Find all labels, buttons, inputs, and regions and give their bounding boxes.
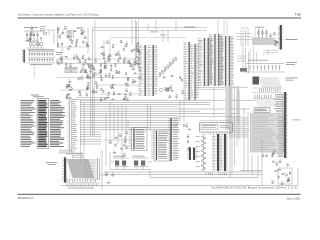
transistor cluster Q100 area (57, 26, 93, 66)
routing web right of bank (237, 46, 257, 63)
VIP signal row resistors (246, 60, 284, 72)
discrete cluster mid-left D (94, 79, 136, 101)
wires below J210 (265, 51, 278, 53)
filter row 2 L101-L104 (29, 43, 42, 46)
board connector J103 (21, 99, 66, 149)
flash memory U202 (139, 45, 158, 96)
discrete cluster above charge pumps (113, 145, 129, 156)
grey bus band vertical 1 (226, 86, 232, 130)
connector J101 (22, 49, 54, 62)
svg-text:Schematics, Component Location: Schematics, Component Location Diagrams,… (18, 13, 100, 16)
pullup resistors top (255, 27, 267, 38)
microprocessor U200 pin bank B (209, 34, 224, 86)
keypad connector J210 (278, 25, 283, 50)
backlight fan block (253, 95, 279, 108)
vertical wire pair x136 (136, 20, 139, 60)
discrete band row (56, 54, 142, 67)
net label right of J103 (58, 109, 64, 112)
nested corner wires (240, 28, 248, 46)
LCD rows left extension (229, 118, 249, 138)
option connector J110 (62, 158, 66, 183)
svg-text:7-39: 7-39 (295, 13, 301, 17)
right vertical wire runs (230, 86, 262, 186)
option fan hatch (65, 150, 108, 190)
LCD module block M1 (251, 114, 284, 153)
memory U201 pin bank C (220, 36, 234, 86)
microprocessor U200 pin bank A (198, 38, 213, 86)
option header ticks top (58, 150, 84, 158)
long bus wires top (92, 28, 207, 62)
filter parts extra (26, 27, 43, 46)
audio PA cluster Q120 (271, 160, 291, 185)
grey bus band vertical 2 (237, 86, 240, 122)
routing wires to ribbon (236, 26, 268, 56)
option note text (46, 162, 57, 165)
decoupling block (240, 68, 247, 72)
regulator U206 (129, 128, 148, 151)
audio IC U205 (206, 134, 228, 175)
not-placed note 1 (286, 38, 298, 41)
series resistor chain R210-R217 (158, 57, 178, 78)
VIP note text (286, 62, 297, 65)
buffer U208 column (168, 118, 179, 161)
dark IC block U209 (187, 148, 197, 161)
net label top (184, 26, 195, 29)
svg-text:6881094C31-C: 6881094C31-C (18, 197, 34, 200)
header rule (18, 18, 302, 19)
display label box (254, 108, 270, 112)
discrete cluster middle-top (100, 20, 140, 57)
net label right of J211 (293, 119, 301, 122)
inner boundary wire (110, 38, 186, 55)
top net wires (95, 20, 156, 30)
test point strip column (68, 98, 78, 152)
latch U204 box (200, 121, 233, 135)
EMI filter network FL100 (24, 26, 54, 48)
J211 pin name rows upper (275, 93, 284, 96)
option bottom text row (68, 187, 94, 190)
parts at bottom wire (105, 172, 114, 183)
display data fan block (252, 77, 282, 93)
discrete cluster mid-left C (66, 74, 96, 99)
SRAM U203 (184, 42, 200, 100)
discrete cluster mid-left B (99, 63, 142, 82)
buffer gates (159, 88, 168, 91)
vertical bus drop x90 (91, 66, 95, 136)
bus drop to U206 (128, 104, 151, 131)
discrete cluster mid-bottom x110 (104, 131, 135, 147)
audio PA wire loop (278, 168, 292, 184)
display connector J211 (282, 92, 288, 158)
J211 pin name rows lower (277, 152, 284, 155)
connector bottom cluster (261, 150, 276, 157)
net labels near box top (150, 32, 166, 36)
parts cluster at J210 (270, 32, 280, 46)
svg-text:HLN6943B/10 VOCON Board Schema: HLN6943B/10 VOCON Board Schematic (Sheet… (211, 185, 298, 189)
charge pump Q111 pair (132, 156, 152, 169)
not-placed note 2 (286, 78, 298, 81)
option bottom resistor rows (65, 179, 100, 186)
mid vertical wire runs (163, 20, 184, 122)
footer rule (18, 194, 301, 195)
ribbon bus to J210 (252, 38, 274, 45)
bank bottom rail (196, 88, 248, 90)
wire bundle right of bank (243, 46, 249, 73)
discrete cluster mid-left A (78, 65, 97, 80)
reference label box (67, 31, 74, 38)
net stub labels right of J101 (56, 52, 63, 55)
address/data bus band (76, 97, 255, 144)
charge pump Q110 pair (111, 156, 129, 169)
wires through bank gap (178, 88, 242, 118)
J103 top labels (31, 95, 44, 98)
filter ladder L220 chain (196, 134, 207, 172)
wire bundle left (34, 47, 88, 78)
discrete cluster right of U208 (183, 124, 191, 151)
designator table boxes (65, 67, 77, 72)
regulator U207 (151, 130, 170, 161)
svg-text:July 1, 2002: July 1, 2002 (287, 198, 301, 201)
bottom wire runs (60, 152, 298, 186)
long wire horizontals mid (57, 78, 142, 95)
bus vertical drops (81, 100, 127, 166)
discrete cluster near chain (163, 76, 184, 99)
capacitor bank C101-C112 (28, 52, 55, 66)
